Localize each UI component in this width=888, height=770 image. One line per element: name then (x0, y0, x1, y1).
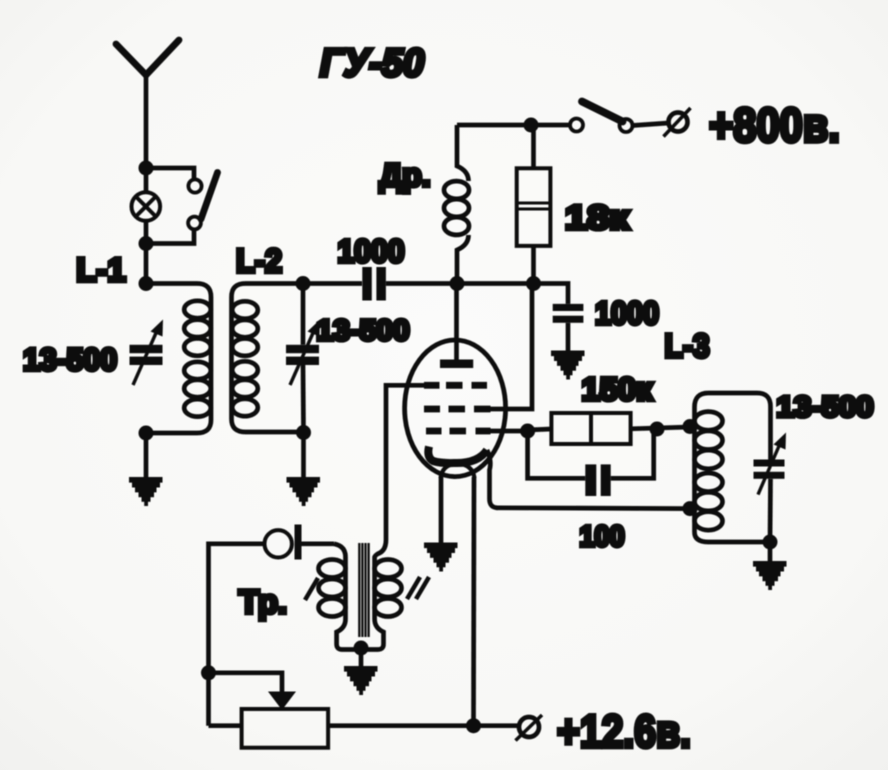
svg-text:L-3: L-3 (665, 327, 710, 364)
junction L3 upper tap (683, 419, 698, 434)
terminal +12.6V (516, 715, 543, 741)
switch S1 (146, 168, 218, 244)
junction node A (139, 161, 154, 176)
wire L3 bottom to ground (768, 542, 773, 562)
junction left bus (201, 665, 216, 680)
anode plate (440, 360, 473, 369)
junction L1 top (139, 276, 154, 291)
junction 18k bottom (526, 276, 541, 291)
wire transformer to ground (359, 648, 364, 667)
grid3 wire to 150k (489, 429, 528, 434)
wire pot right to terminal (328, 723, 518, 728)
capacitor 13-500 L2 tank (286, 284, 320, 433)
filament lead right (471, 477, 476, 726)
junction anode node (450, 276, 465, 291)
junction node B (139, 236, 154, 251)
junction top bus (524, 118, 539, 133)
filament lead left (439, 477, 444, 543)
junction L2 bottom (296, 425, 311, 440)
label I winding (305, 578, 318, 600)
cathode arc (428, 447, 487, 464)
resistor 18k (517, 125, 551, 284)
microphone BM1 (265, 525, 302, 560)
potentiometer R (242, 709, 329, 748)
svg-text:L-2: L-2 (236, 242, 282, 279)
ground L1 (129, 480, 163, 504)
junction L1 bottom (139, 426, 154, 441)
tube GU-50 envelope U1 (405, 340, 506, 477)
svg-text:150к: 150к (582, 371, 654, 407)
anode lead (454, 284, 459, 362)
ground filament (424, 545, 458, 569)
svg-text:Др.: Др. (379, 157, 430, 193)
wire anode node to 18k bottom (457, 281, 534, 286)
capacitor 1000 coupling (362, 267, 386, 301)
svg-text:+12.6в.: +12.6в. (557, 705, 691, 757)
wire antenna to node A (144, 72, 149, 168)
coil L-3 (695, 393, 771, 542)
wire L2 bottom to ground (301, 433, 306, 479)
terminal +800V (664, 108, 691, 137)
svg-text:100: 100 (580, 521, 625, 553)
junction L3 bottom (763, 535, 778, 550)
choke Dr (444, 125, 469, 284)
grid2 wire to 18k (486, 284, 532, 410)
ground L3 (753, 564, 787, 588)
ground bypass cap (551, 353, 585, 377)
grid 3 dashes (426, 428, 491, 435)
junction grid3 (520, 424, 535, 439)
svg-text:1000: 1000 (595, 295, 659, 331)
lamp HL1 (132, 168, 161, 244)
junction 150k right (650, 422, 665, 437)
transformer secondary II (361, 540, 402, 650)
svg-text:18к: 18к (565, 199, 630, 237)
wire to bypass cap (534, 284, 569, 304)
capacitor 13-500 L1 tank (130, 320, 164, 386)
wire top bus (457, 123, 570, 128)
switch S2 (570, 102, 669, 133)
svg-text:+800в.: +800в. (709, 100, 840, 153)
transformer core (359, 543, 368, 637)
capacitor 13-500 L3 tank (754, 433, 787, 543)
grid 1 dashes (424, 382, 487, 389)
transformer primary I (319, 544, 362, 650)
coil L-1 (146, 284, 211, 434)
coil L-2 (232, 284, 304, 433)
antenna (116, 40, 179, 75)
svg-text:1000: 1000 (338, 233, 405, 269)
grid1 wire to transformer (386, 385, 432, 540)
filament dome (441, 464, 475, 479)
capacitor 100 (528, 429, 654, 496)
wire L1 bottom to ground (144, 433, 149, 478)
junction filament bus (466, 718, 481, 733)
potentiometer wiper arm (209, 673, 297, 710)
wire mic left (209, 544, 265, 726)
cathode wire to L3 (496, 505, 690, 511)
ground L2 (287, 480, 321, 504)
ground transformer (344, 669, 378, 693)
label II winding (407, 577, 429, 599)
junction transformer bottom (354, 641, 369, 656)
wire pot left (209, 723, 242, 728)
wire L2 top to C1000 (303, 281, 362, 286)
svg-text:ГУ-50: ГУ-50 (320, 42, 424, 85)
junction L2 top (296, 276, 311, 291)
resistor 150k (528, 413, 690, 444)
wire node B to L1 top (144, 244, 149, 284)
junction L3 lower tap (683, 501, 698, 516)
capacitor 1000 bypass (553, 304, 584, 351)
wire mic to primary (302, 541, 335, 546)
svg-text:L-1: L-1 (76, 251, 126, 288)
cathode tail to output (487, 450, 498, 508)
wire C1000 to anode node (386, 281, 457, 286)
svg-text:13-500: 13-500 (23, 342, 117, 377)
svg-text:Тр.: Тр. (239, 583, 287, 620)
grid 2 dashes (424, 406, 491, 413)
svg-text:13-500: 13-500 (317, 315, 410, 347)
svg-text:13-500: 13-500 (777, 392, 874, 424)
